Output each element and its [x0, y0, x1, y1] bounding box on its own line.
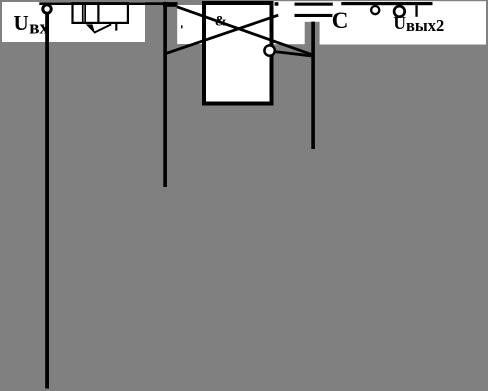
component V1 arrowhead: [86, 24, 96, 34]
component V1 plate 2: [84, 3, 86, 23]
svg-text:U: U: [393, 13, 406, 33]
terminal Uvx: [43, 5, 51, 13]
gate DD1 inversion bubble: [264, 45, 274, 55]
wire cross-coupling diagonal: [165, 15, 278, 54]
svg-text:C: C: [332, 8, 349, 33]
wire top rail right: [341, 2, 432, 5]
logic gate DD1 body: [204, 3, 272, 104]
svg-text:вых2: вых2: [406, 16, 444, 35]
junction node A: [163, 2, 178, 7]
wire vertical at node B: [311, 22, 315, 149]
terminal output 2: [394, 6, 405, 17]
wire feedback diagonal to node A: [177, 7, 314, 55]
svg-text:U: U: [14, 11, 29, 35]
node mark: [275, 2, 279, 5]
component V1 plate 1: [82, 3, 84, 23]
component V1 divider: [97, 3, 99, 23]
capacitor C plate 1: [295, 3, 333, 6]
terminal pin stub: [415, 5, 417, 17]
wire vertical at node A: [163, 2, 167, 187]
stray mark: [181, 25, 183, 28]
wire input vertical: [45, 13, 49, 389]
component V1 pin stub: [115, 24, 117, 31]
wire top rail left: [39, 2, 167, 5]
svg-text:вх: вх: [29, 17, 49, 38]
component V1 body (cropped): [73, 3, 128, 23]
capacitor C plate 2: [295, 14, 333, 17]
wire gate output to node B: [274, 52, 314, 57]
component V1 arrow lead: [94, 24, 111, 32]
terminal output 1: [371, 6, 379, 14]
